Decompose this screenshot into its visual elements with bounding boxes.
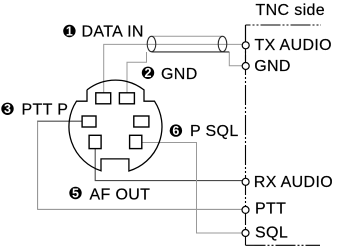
svg-text:P SQL: P SQL [190, 123, 239, 140]
svg-text:6: 6 [172, 124, 179, 138]
pin 6 [130, 135, 142, 148]
wire pin3 stub (PTT P) [37, 120, 82, 122]
terminal PTT [242, 206, 249, 213]
wire pin2 to cable shield (GND) [127, 52, 147, 93]
mini-DIN 6 connector outline [69, 80, 162, 171]
terminal RX AUDIO [242, 178, 249, 185]
svg-text:RX AUDIO: RX AUDIO [254, 174, 333, 191]
svg-text:SQL: SQL [255, 225, 288, 242]
svg-text:2: 2 [145, 66, 152, 80]
svg-text:5: 5 [72, 186, 79, 200]
bullet 2 [142, 66, 154, 80]
terminal SQL [242, 230, 249, 237]
wire shield to GND terminal [229, 52, 242, 66]
svg-text:GND: GND [161, 66, 198, 83]
TNC boundary vertical solid segment at terminals [245, 25, 247, 71]
TNC boundary vertical [245, 25, 247, 245]
wire pin5 to RX AUDIO terminal (AF OUT) [95, 149, 242, 181]
svg-text:GND: GND [254, 58, 291, 75]
cable shield cylinder [147, 36, 229, 52]
pin 5 [89, 135, 101, 148]
svg-text:PTT: PTT [255, 201, 286, 218]
pin 2 [119, 93, 134, 104]
bullet 5 [69, 186, 81, 200]
bullet 6 [170, 124, 182, 138]
pin 3 [82, 116, 96, 127]
svg-text:TNC side: TNC side [256, 2, 325, 19]
terminal GND [242, 63, 249, 70]
svg-text:AF OUT: AF OUT [90, 187, 151, 204]
bullet 3 [1, 102, 13, 116]
wire pin6 to SQL terminal (P SQL) [142, 143, 242, 234]
TNC boundary bottom [246, 244, 321, 246]
bullet 1 [63, 24, 75, 38]
svg-text:PTT P: PTT P [22, 101, 69, 118]
svg-text:1: 1 [66, 24, 73, 38]
wire cable center conductor to TX AUDIO terminal [152, 43, 243, 45]
wire pin1 to cable center (DATA IN) [104, 44, 152, 92]
pin 1 [96, 93, 111, 104]
terminal TX AUDIO [242, 42, 249, 49]
svg-text:TX AUDIO: TX AUDIO [255, 37, 332, 54]
TNC boundary top [246, 24, 322, 26]
svg-text:3: 3 [4, 102, 11, 116]
pin 4 [134, 116, 149, 127]
svg-text:DATA IN: DATA IN [82, 24, 144, 41]
wire pin3 to PTT terminal (PTT P) [38, 121, 243, 209]
